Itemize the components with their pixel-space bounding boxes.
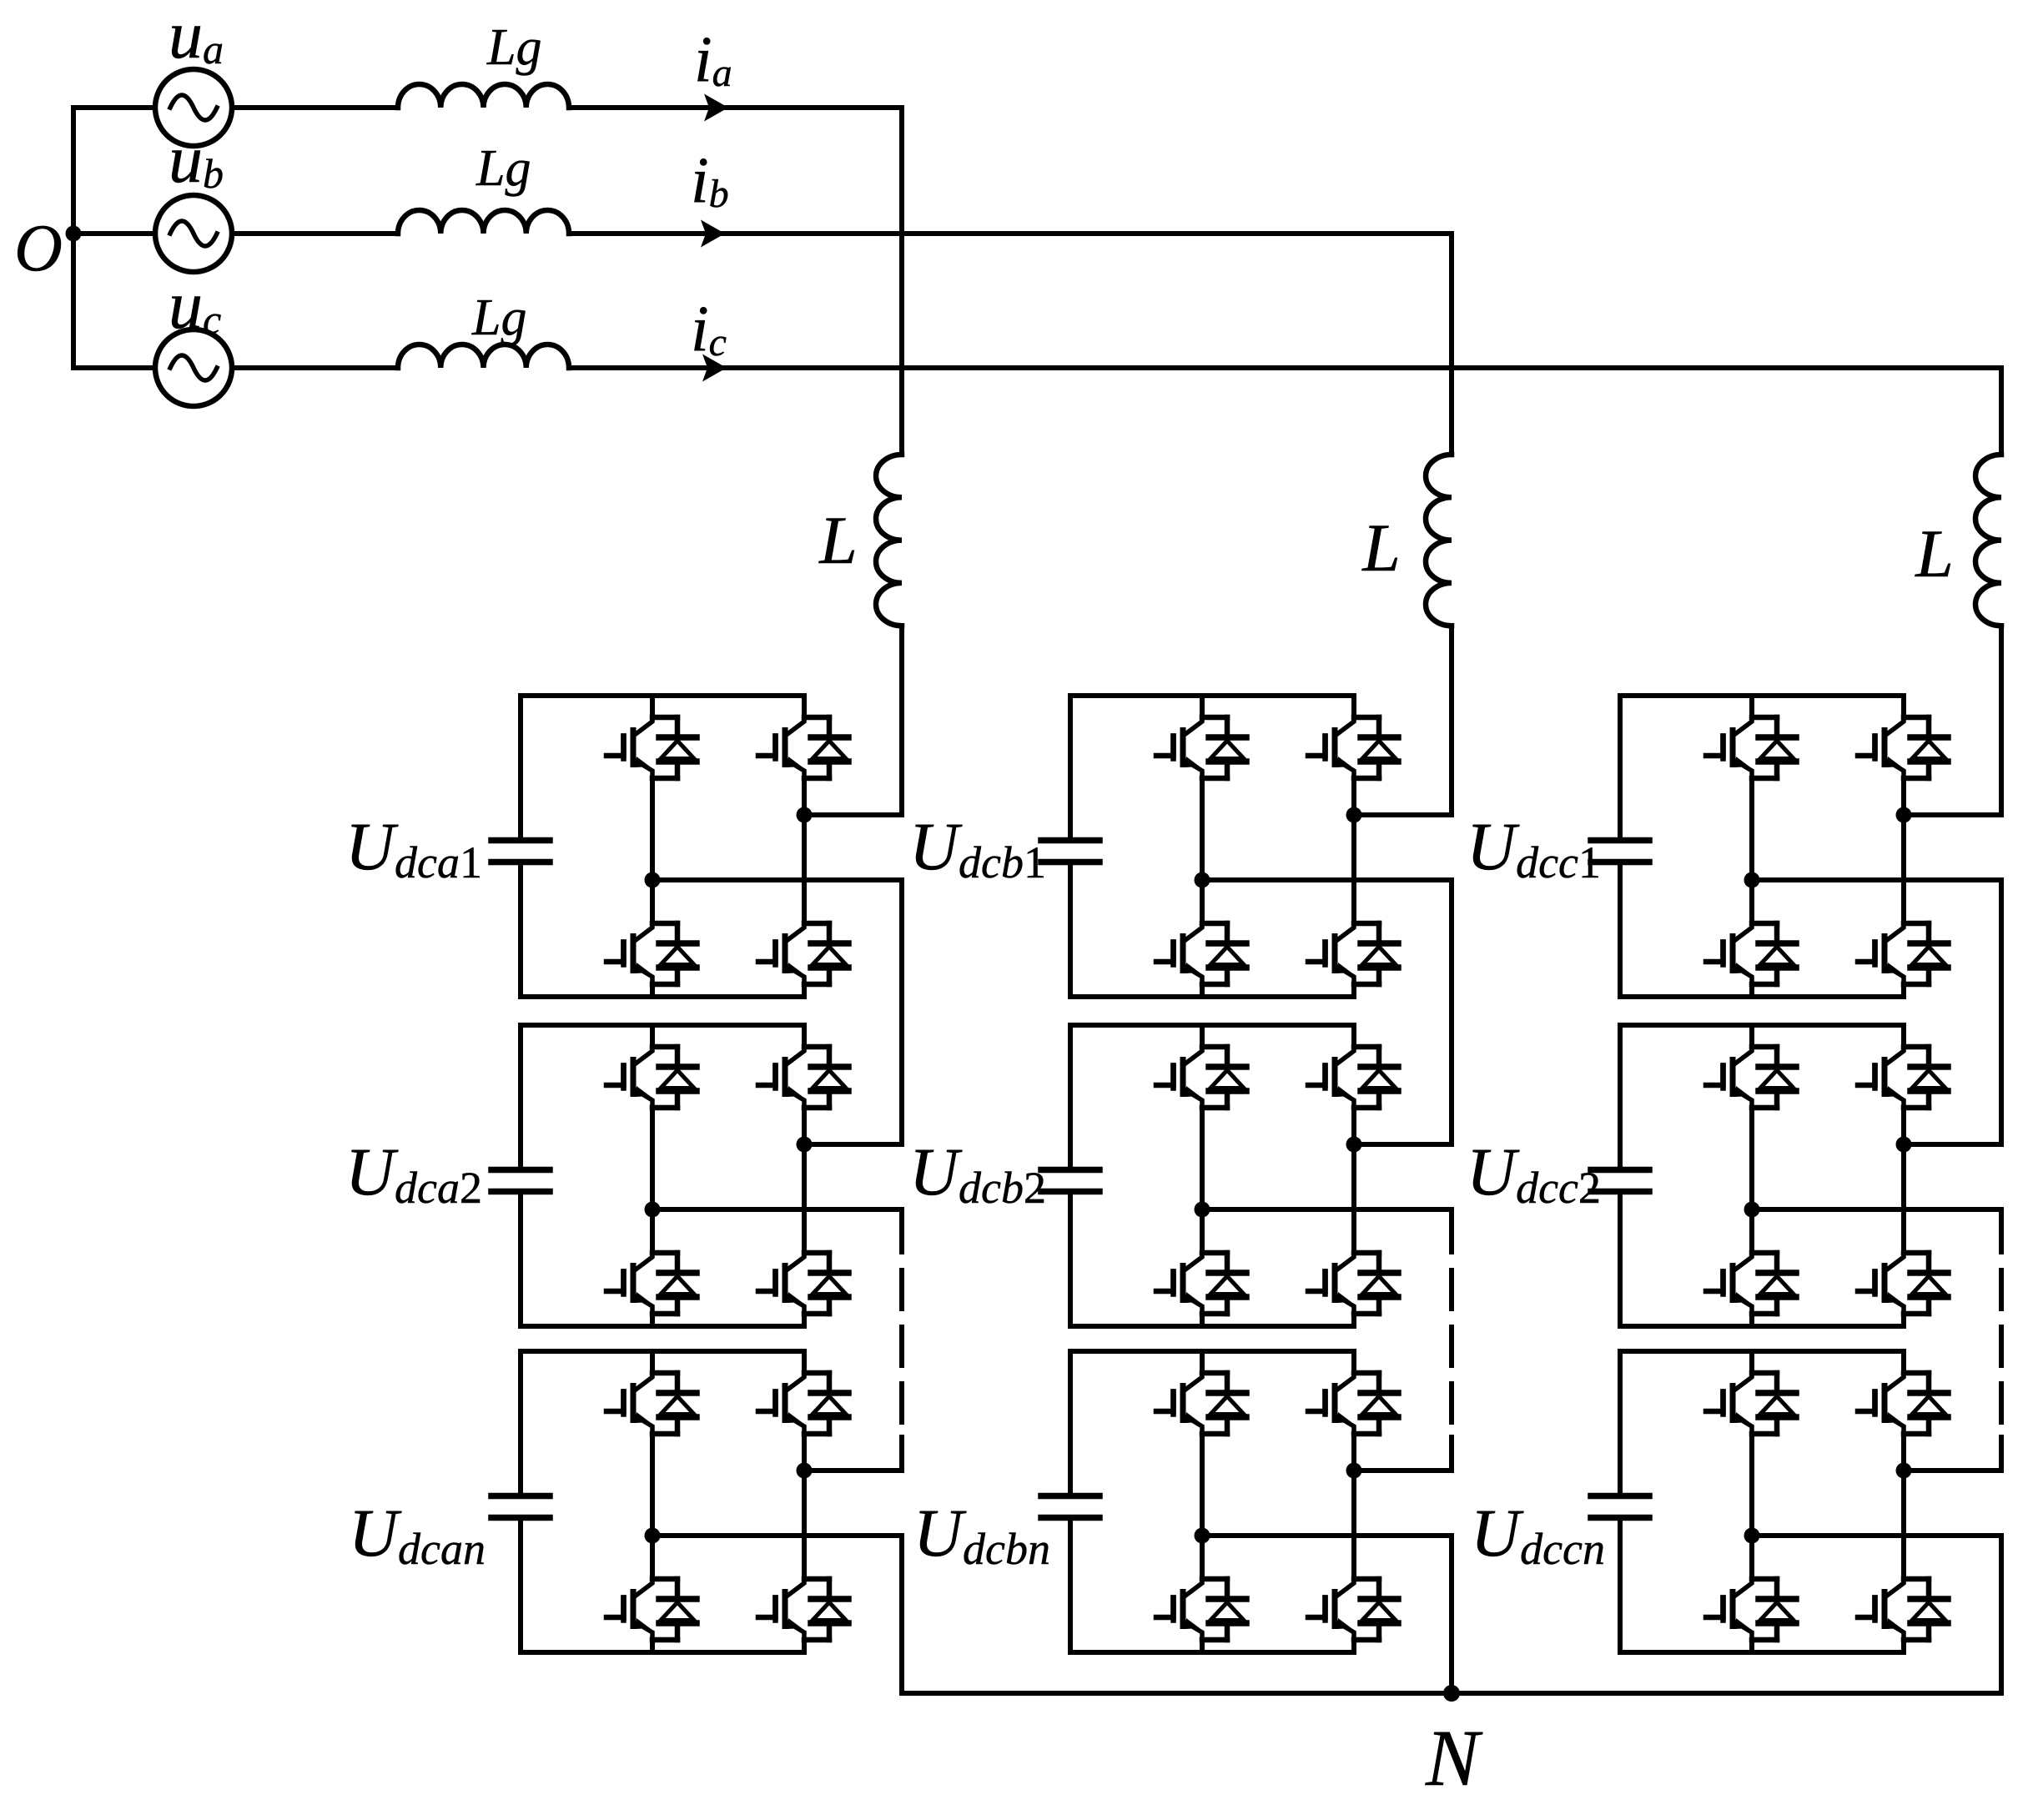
right leg upper wire cell a2	[802, 1025, 807, 1047]
wire cell bn to bottom bus	[1202, 1536, 1452, 1693]
right leg middle wire cell a1	[802, 778, 807, 923]
left leg AC node dot cell c2	[1744, 1202, 1760, 1218]
wire link cell a1 to cell a2	[652, 880, 902, 1144]
wire from cell b2 AC node	[1202, 1207, 1452, 1212]
H-bridge cell an bottom rail	[521, 1650, 804, 1655]
right leg AC node dot cell a2	[797, 1137, 813, 1153]
svg-text:Lg: Lg	[476, 140, 531, 197]
svg-text:Lg: Lg	[486, 19, 541, 76]
right leg lower wire cell c2	[1901, 1314, 1906, 1326]
capacitor Udcc2 plates	[1591, 1170, 1649, 1192]
capacitor Udca1 plates	[491, 841, 550, 862]
inductor L phase a (vertical)	[876, 455, 902, 626]
right leg lower wire cell a2	[802, 1314, 807, 1326]
capacitor Udcb1 plates	[1041, 841, 1100, 862]
right leg middle wire cell bn	[1351, 1434, 1356, 1579]
dashed continuation wire phase b	[1449, 1214, 1454, 1426]
dashed continuation wire phase c	[1999, 1214, 2004, 1426]
AC voltage source uc circle with sine symbol	[155, 329, 232, 406]
left leg AC node dot cell bn	[1195, 1528, 1210, 1544]
wire from source uc to inductor Lg	[232, 365, 398, 370]
right leg lower wire cell a1	[802, 984, 807, 997]
capacitor Udca1 lower lead	[518, 865, 523, 997]
capacitor Udcan lower lead	[518, 1521, 523, 1652]
capacitor Udccn plates	[1591, 1496, 1649, 1518]
capacitor Udcb1 lower lead	[1068, 865, 1073, 997]
right leg AC node dot cell an	[797, 1463, 813, 1479]
wire phase a line to converter leg	[569, 105, 902, 110]
IGBT lower-left with diode, cell bn	[1156, 1579, 1246, 1640]
left leg lower wire cell c1	[1749, 984, 1754, 997]
right leg middle wire cell b2	[1351, 1108, 1356, 1253]
capacitor Udccn lower lead	[1618, 1521, 1623, 1652]
H-bridge cell b1 bottom rail	[1070, 994, 1354, 999]
IGBT lower-right with diode, cell an	[758, 1579, 848, 1640]
left leg lower wire cell cn	[1749, 1640, 1754, 1652]
left leg middle wire cell b1	[1200, 778, 1205, 923]
capacitor Udcb1 upper lead	[1068, 696, 1073, 837]
wire from bus to source ub	[73, 231, 155, 236]
left leg lower wire cell b1	[1200, 984, 1205, 997]
H-bridge cell c1 bottom rail	[1620, 994, 1904, 999]
left leg middle wire cell cn	[1749, 1434, 1754, 1579]
IGBT lower-left with diode, cell an	[606, 1579, 697, 1640]
IGBT upper-right with diode, cell c2	[1858, 1047, 1948, 1108]
wire inductor L to cell a1 AC terminal	[804, 626, 902, 815]
IGBT lower-right with diode, cell c1	[1858, 923, 1948, 984]
IGBT upper-left with diode, cell b2	[1156, 1047, 1246, 1108]
inductor Lg phase c	[398, 344, 569, 368]
IGBT upper-right with diode, cell an	[758, 1373, 848, 1434]
current arrow ic	[702, 354, 727, 382]
inductor Lg phase a	[398, 84, 569, 108]
wire from cell a2 AC node	[652, 1207, 902, 1212]
wire cell an to bottom bus	[652, 1536, 902, 1693]
right leg AC node dot cell c2	[1896, 1137, 1912, 1153]
left leg upper wire cell cn	[1749, 1351, 1754, 1373]
left leg lower wire cell b2	[1200, 1314, 1205, 1326]
left leg upper wire cell c2	[1749, 1025, 1754, 1047]
right leg upper wire cell b1	[1351, 696, 1356, 717]
right leg upper wire cell bn	[1351, 1351, 1356, 1373]
IGBT lower-left with diode, cell c1	[1706, 923, 1796, 984]
capacitor Udcc1 lower lead	[1618, 865, 1623, 997]
left leg lower wire cell a1	[650, 984, 655, 997]
IGBT lower-left with diode, cell b1	[1156, 923, 1246, 984]
inductor L phase c (vertical)	[1975, 455, 2001, 626]
wire link cell c1 to cell c2	[1752, 880, 2001, 1144]
capacitor Udca2 plates	[491, 1170, 550, 1192]
left leg AC node dot cell a1	[645, 872, 661, 888]
left leg AC node dot cell c1	[1744, 872, 1760, 888]
left leg lower wire cell bn	[1200, 1640, 1205, 1652]
capacitor Udcan upper lead	[518, 1351, 523, 1493]
left leg middle wire cell a2	[650, 1108, 655, 1253]
IGBT lower-right with diode, cell b1	[1308, 923, 1398, 984]
left leg upper wire cell an	[650, 1351, 655, 1373]
wire into cell cn AC terminal	[1904, 1437, 2001, 1471]
right leg upper wire cell cn	[1901, 1351, 1906, 1373]
IGBT upper-left with diode, cell bn	[1156, 1373, 1246, 1434]
capacitor Udcb2 upper lead	[1068, 1025, 1073, 1167]
IGBT lower-right with diode, cell cn	[1858, 1579, 1948, 1640]
capacitor Udca2 upper lead	[518, 1025, 523, 1167]
right leg middle wire cell a2	[802, 1108, 807, 1253]
H-bridge cell b1 top rail	[1070, 693, 1354, 698]
dashed continuation wire phase a	[899, 1214, 904, 1426]
node N junction dot	[1443, 1685, 1460, 1702]
left leg AC node dot cell a2	[645, 1202, 661, 1218]
right leg lower wire cell cn	[1901, 1640, 1906, 1652]
right leg middle wire cell b1	[1351, 778, 1356, 923]
wire from bus to source ua	[73, 105, 155, 110]
IGBT upper-right with diode, cell cn	[1858, 1373, 1948, 1434]
IGBT upper-right with diode, cell a2	[758, 1047, 848, 1108]
H-bridge cell a1 top rail	[521, 693, 804, 698]
IGBT upper-left with diode, cell a1	[606, 717, 697, 778]
svg-text:L: L	[1361, 510, 1401, 586]
H-bridge cell b2 bottom rail	[1070, 1324, 1354, 1329]
capacitor Udcbn lower lead	[1068, 1521, 1073, 1652]
left leg AC node dot cell b1	[1195, 872, 1210, 888]
capacitor Udcc1 upper lead	[1618, 696, 1623, 837]
right leg upper wire cell c1	[1901, 696, 1906, 717]
right leg upper wire cell c2	[1901, 1025, 1906, 1047]
IGBT upper-left with diode, cell a2	[606, 1047, 697, 1108]
inductor L phase b (vertical)	[1426, 455, 1452, 626]
left leg lower wire cell an	[650, 1640, 655, 1652]
wire from cell c2 AC node	[1752, 1207, 2001, 1212]
H-bridge cell c2 bottom rail	[1620, 1324, 1904, 1329]
wire into cell an AC terminal	[804, 1437, 902, 1471]
wire cell cn to bottom bus	[1752, 1536, 2001, 1693]
capacitor Udcan plates	[491, 1496, 550, 1518]
left leg AC node dot cell cn	[1744, 1528, 1760, 1544]
AC voltage source ua circle with sine symbol	[155, 69, 232, 146]
right leg middle wire cell cn	[1901, 1434, 1906, 1579]
right leg lower wire cell b1	[1351, 984, 1356, 997]
wire from source ua to inductor Lg	[232, 105, 398, 110]
IGBT upper-right with diode, cell a1	[758, 717, 848, 778]
left leg middle wire cell an	[650, 1434, 655, 1579]
wire phase b down to inductor L	[1449, 234, 1454, 455]
left leg middle wire cell c2	[1749, 1108, 1754, 1253]
AC voltage source ub circle with sine symbol	[155, 195, 232, 272]
H-bridge cell a2 bottom rail	[521, 1324, 804, 1329]
IGBT upper-left with diode, cell c2	[1706, 1047, 1796, 1108]
IGBT upper-right with diode, cell bn	[1308, 1373, 1398, 1434]
wire link cell b1 to cell b2	[1202, 880, 1452, 1144]
left leg upper wire cell b2	[1200, 1025, 1205, 1047]
inductor Lg phase b	[398, 210, 569, 234]
svg-text:O: O	[14, 212, 63, 285]
right leg lower wire cell c1	[1901, 984, 1906, 997]
IGBT lower-left with diode, cell cn	[1706, 1579, 1796, 1640]
left leg lower wire cell a2	[650, 1314, 655, 1326]
left leg middle wire cell a1	[650, 778, 655, 923]
current arrow ib	[701, 220, 725, 248]
H-bridge cell an top rail	[521, 1349, 804, 1354]
right leg AC node dot cell c1	[1896, 807, 1912, 823]
current arrow ia	[704, 94, 728, 122]
left leg AC node dot cell b2	[1195, 1202, 1210, 1218]
wire inductor L to cell c1 AC terminal	[1904, 626, 2001, 815]
capacitor Udcc2 lower lead	[1618, 1194, 1623, 1326]
IGBT upper-right with diode, cell b2	[1308, 1047, 1398, 1108]
right leg AC node dot cell b2	[1346, 1137, 1362, 1153]
svg-text:L: L	[1915, 515, 1954, 591]
wire into cell bn AC terminal	[1354, 1437, 1452, 1471]
H-bridge cell cn bottom rail	[1620, 1650, 1904, 1655]
right leg lower wire cell bn	[1351, 1640, 1356, 1652]
capacitor Udca1 upper lead	[518, 696, 523, 837]
capacitor Udcb2 lower lead	[1068, 1194, 1073, 1326]
capacitor Udcc1 plates	[1591, 841, 1649, 862]
left leg middle wire cell bn	[1200, 1434, 1205, 1579]
wire phase c line to converter leg	[569, 365, 2001, 370]
H-bridge cell a2 top rail	[521, 1023, 804, 1028]
right leg upper wire cell b2	[1351, 1025, 1356, 1047]
right leg upper wire cell a1	[802, 696, 807, 717]
IGBT upper-left with diode, cell cn	[1706, 1373, 1796, 1434]
right leg middle wire cell c1	[1901, 778, 1906, 923]
wire phase a down to inductor L	[899, 108, 904, 455]
left leg lower wire cell c2	[1749, 1314, 1754, 1326]
IGBT lower-right with diode, cell a1	[758, 923, 848, 984]
node O junction dot	[66, 226, 82, 242]
right leg middle wire cell an	[802, 1434, 807, 1579]
left leg upper wire cell a2	[650, 1025, 655, 1047]
H-bridge cell c2 top rail	[1620, 1023, 1904, 1028]
IGBT upper-right with diode, cell b1	[1308, 717, 1398, 778]
left leg upper wire cell bn	[1200, 1351, 1205, 1373]
capacitor Udca2 lower lead	[518, 1194, 523, 1326]
left leg AC node dot cell an	[645, 1528, 661, 1544]
H-bridge cell b2 top rail	[1070, 1023, 1354, 1028]
IGBT lower-right with diode, cell bn	[1308, 1579, 1398, 1640]
IGBT upper-left with diode, cell b1	[1156, 717, 1246, 778]
left leg upper wire cell b1	[1200, 696, 1205, 717]
IGBT lower-left with diode, cell a1	[606, 923, 697, 984]
IGBT lower-left with diode, cell c2	[1706, 1253, 1796, 1314]
IGBT upper-left with diode, cell c1	[1706, 717, 1796, 778]
right leg AC node dot cell a1	[797, 807, 813, 823]
right leg lower wire cell an	[802, 1640, 807, 1652]
IGBT upper-left with diode, cell an	[606, 1373, 697, 1434]
H-bridge cell c1 top rail	[1620, 693, 1904, 698]
wire phase c down to inductor L	[1999, 368, 2004, 455]
right leg AC node dot cell cn	[1896, 1463, 1912, 1479]
H-bridge cell bn top rail	[1070, 1349, 1354, 1354]
right leg lower wire cell b2	[1351, 1314, 1356, 1326]
svg-text:Lg: Lg	[471, 289, 526, 346]
wire from bus to source uc	[73, 365, 155, 370]
wire from source ub to inductor Lg	[232, 231, 398, 236]
H-bridge cell bn bottom rail	[1070, 1650, 1354, 1655]
right leg middle wire cell c2	[1901, 1108, 1906, 1253]
svg-text:N: N	[1425, 1713, 1483, 1802]
capacitor Udcb2 plates	[1041, 1170, 1100, 1192]
H-bridge cell cn top rail	[1620, 1349, 1904, 1354]
right leg AC node dot cell bn	[1346, 1463, 1362, 1479]
IGBT upper-right with diode, cell c1	[1858, 717, 1948, 778]
capacitor Udcbn plates	[1041, 1496, 1100, 1518]
wire inductor L to cell b1 AC terminal	[1354, 626, 1452, 815]
wire left bus vertical connecting three sources	[71, 108, 76, 368]
IGBT lower-left with diode, cell a2	[606, 1253, 697, 1314]
IGBT lower-right with diode, cell b2	[1308, 1253, 1398, 1314]
H-bridge cell a1 bottom rail	[521, 994, 804, 999]
wire phase b line to converter leg	[569, 231, 1452, 236]
capacitor Udccn upper lead	[1618, 1351, 1623, 1493]
svg-text:L: L	[818, 502, 858, 578]
IGBT lower-left with diode, cell b2	[1156, 1253, 1246, 1314]
left leg upper wire cell c1	[1749, 696, 1754, 717]
capacitor Udcc2 upper lead	[1618, 1025, 1623, 1167]
right leg AC node dot cell b1	[1346, 807, 1362, 823]
IGBT lower-right with diode, cell c2	[1858, 1253, 1948, 1314]
left leg middle wire cell b2	[1200, 1108, 1205, 1253]
wire bottom neutral bus	[902, 1691, 2001, 1696]
left leg middle wire cell c1	[1749, 778, 1754, 923]
right leg upper wire cell an	[802, 1351, 807, 1373]
capacitor Udcbn upper lead	[1068, 1351, 1073, 1493]
left leg upper wire cell a1	[650, 696, 655, 717]
IGBT lower-right with diode, cell a2	[758, 1253, 848, 1314]
